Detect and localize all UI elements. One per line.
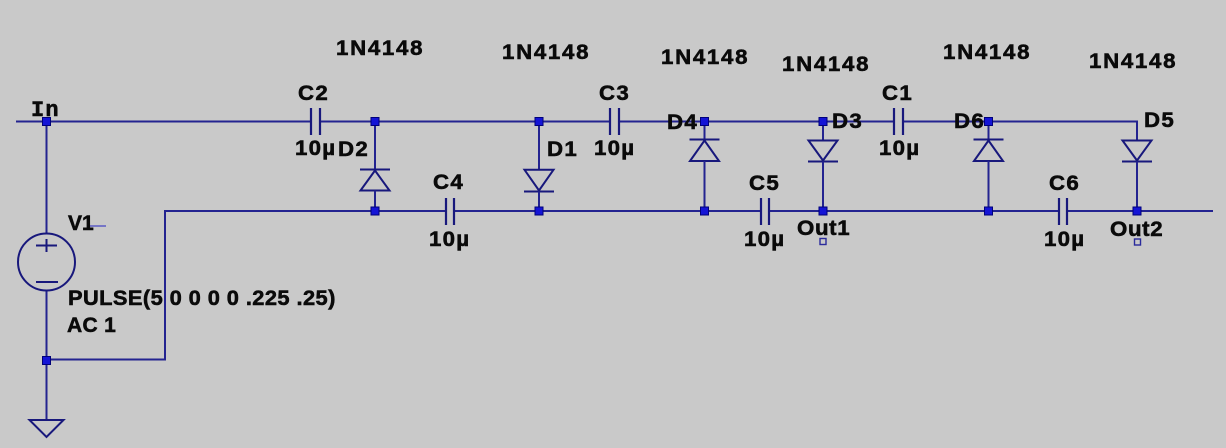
wire: bottom rail segment C4 to C5 <box>455 210 760 212</box>
reference label C1 <box>882 83 913 104</box>
value label 1N4148 of D6 <box>943 42 1031 63</box>
value label 1N4148 of D5 <box>1089 51 1177 72</box>
wire: In node down to V1 top <box>46 121 48 234</box>
reference label D3 <box>832 111 863 132</box>
wire: V1 bottom to ground node <box>46 290 48 420</box>
node In junction <box>43 118 51 126</box>
diode D1 <box>524 121 554 212</box>
node: D1 junction on top rail <box>535 118 543 126</box>
value label 1N4148 of D1 <box>502 42 590 63</box>
node: D1 cathode junction on bottom rail <box>535 207 543 215</box>
wire: V1 minus horizontal run to riser <box>47 359 166 361</box>
wire: riser up to bottom rail <box>164 210 166 361</box>
node Out2 junction <box>1133 207 1141 215</box>
node: V1 minus junction <box>43 357 51 365</box>
node: D4 junction on top rail <box>701 118 709 126</box>
node: Out1 label anchor <box>820 239 826 245</box>
value label 10µ of C5 <box>744 229 785 250</box>
wire: bottom rail segment C6 to right edge <box>1068 210 1213 212</box>
reference label D2 <box>338 139 369 160</box>
reference label C6 <box>1049 173 1080 194</box>
value label 10µ of C6 <box>1044 229 1085 250</box>
node A: net label In <box>31 100 60 121</box>
reference label D5 <box>1144 110 1175 131</box>
node: Out2 label anchor <box>1135 239 1141 245</box>
wire: bottom rail segment C5 to C6 <box>770 210 1058 212</box>
node: net label Out2 <box>1110 219 1163 240</box>
reference label D6 <box>954 111 985 132</box>
node: D2 anode junction on top rail <box>371 118 379 126</box>
value label 10µ of C2 <box>295 138 336 159</box>
diode D3 <box>808 121 838 212</box>
reference label D4 <box>667 112 698 133</box>
ground <box>30 420 64 437</box>
node: net label Out1 <box>797 218 850 239</box>
capacitor C1 <box>894 108 903 135</box>
capacitor C4 <box>446 198 454 225</box>
diode D5 <box>1122 121 1152 213</box>
wire: top rail segment C1 to D5 corner <box>904 121 1138 123</box>
value label 10µ of C4 <box>429 229 470 250</box>
reference label C4 <box>433 172 464 193</box>
wire: bottom rail segment left of C4 <box>165 210 445 212</box>
capacitor C6 <box>1059 198 1067 225</box>
value label 1N4148 of D3 <box>782 54 870 75</box>
value label AC of V1 <box>67 315 116 336</box>
value label 10µ of C1 <box>879 138 920 159</box>
capacitor C3 <box>610 108 619 135</box>
node: D3 junction on top rail <box>819 118 827 126</box>
reference label D1 <box>547 139 578 160</box>
voltage source V1 <box>18 234 75 291</box>
value label 10µ of C3 <box>594 138 635 159</box>
reference label C2 <box>298 83 329 104</box>
node Out1 junction <box>819 207 827 215</box>
value label 1N4148 of D4 <box>661 47 749 68</box>
reference label C5 <box>749 173 780 194</box>
wire: top rail segment C2 to C3 <box>321 121 609 123</box>
capacitor C2 <box>311 108 320 135</box>
value label 1N4148 of D2 <box>336 38 424 59</box>
value label PULSE of V1 <box>68 288 336 309</box>
diode D6 <box>974 121 1004 212</box>
node: D6 junction on top rail <box>985 118 993 126</box>
capacitor C5 <box>761 198 769 225</box>
node: D4 anode junction on bottom rail <box>701 207 709 215</box>
node: D2 cathode junction on bottom rail <box>371 207 379 215</box>
node: D6 anode junction on bottom rail <box>985 207 993 215</box>
wire: top rail segment left of C2 <box>16 121 310 123</box>
diode D4 <box>690 121 720 212</box>
wire: top rail segment C3 to C1 <box>620 121 893 123</box>
reference label C3 <box>599 83 630 104</box>
diode D2 <box>360 121 390 212</box>
reference label V1 <box>68 213 94 234</box>
wire: stub right of V1 label <box>90 225 106 227</box>
